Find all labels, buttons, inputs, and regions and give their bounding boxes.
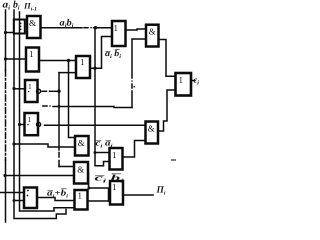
svg-text:1: 1 <box>112 182 117 192</box>
junction L1-GB <box>3 174 6 177</box>
wire G6 output down to G7 upper input <box>159 40 176 77</box>
svg-text:1: 1 <box>29 49 34 59</box>
svg-text:&: & <box>148 124 155 134</box>
gate G10 (OR 1) bottom left <box>24 188 37 209</box>
wire G4 output to G8 upper input <box>45 124 146 126</box>
gate G2 (OR 1) <box>26 48 39 72</box>
wire x95 bottom to G9 lower input <box>95 153 110 166</box>
wire x95 vertical <box>94 28 96 153</box>
wire V1 to G5m lower input <box>59 72 76 74</box>
gate GA (AND &) middle <box>75 136 89 156</box>
wire G9 output up to G8 lower input <box>123 141 146 158</box>
wire L2 to GA lower input <box>14 144 75 147</box>
wire G12 output П_i <box>123 194 153 196</box>
gate G5 (OR 1) top middle <box>112 21 126 46</box>
junction GB output corner <box>88 187 91 190</box>
wire G2 output to G5m <box>39 60 76 62</box>
wire G11 output to G12 input <box>88 200 111 202</box>
svg-text:1: 1 <box>80 57 85 67</box>
wire G10 output to G11 input <box>37 198 75 201</box>
wire L2 to G3 input <box>14 88 25 90</box>
wire rail L2 (b_i) vertical with bottom route to G11 <box>14 10 66 219</box>
junction G2 output / V2 <box>67 59 70 62</box>
wire rail L1 (a_i) vertical <box>5 10 7 222</box>
wire from left edge to G10 input <box>0 192 24 194</box>
junction x95 / G9 upper wire <box>94 151 97 154</box>
wire G8 output up to G7 lower input <box>159 90 176 131</box>
junction L2-GA <box>12 142 15 145</box>
wire G1 output a_i b_i to G5 <box>41 27 113 29</box>
svg-text:1: 1 <box>112 150 117 160</box>
wire G5m output up to G5 lower input <box>90 37 112 69</box>
junction L2-G10 <box>13 199 16 202</box>
gate GB (AND &) middle lower <box>74 162 88 184</box>
wire G5 output to G6 input <box>126 29 147 30</box>
gate G7 (OR 1) right, sum output <box>176 73 192 96</box>
junction L3-G4 <box>18 123 21 126</box>
wire V1 vertical <box>58 73 60 167</box>
junction a_i b_i with x95 vertical <box>94 26 97 29</box>
svg-text:1: 1 <box>28 115 32 124</box>
svg-text:1: 1 <box>179 75 184 85</box>
wire L2 stub to G10 lower input <box>14 200 24 202</box>
junction L1-G1 <box>4 31 7 34</box>
svg-text:&: & <box>78 138 85 148</box>
wire G3 output dashed to V1 <box>42 90 59 92</box>
gate G1 (AND &) top-left <box>27 16 41 38</box>
junction V1 / y106 wire <box>58 105 61 108</box>
wire GB output down to G12 <box>88 173 109 201</box>
junction L2-G3 <box>12 87 15 90</box>
svg-text:&: & <box>29 18 36 28</box>
wire G7 output c_i <box>191 80 195 82</box>
wire L1 to G2 input <box>6 58 27 60</box>
gate G5m (OR 1) middle <box>76 56 90 78</box>
noise dash right of G9 output <box>172 159 176 161</box>
svg-text:&: & <box>77 164 84 174</box>
gate G4 (NOT 1) with bubble <box>25 113 39 135</box>
svg-text:1: 1 <box>28 82 32 91</box>
wire x95 to G9 upper input <box>95 152 110 154</box>
gate G3 (NOT 1) with bubble <box>25 80 38 102</box>
gate G6 (AND &) top right <box>146 25 159 47</box>
wire horizontal y106 dash-dot to x132 vertical <box>43 105 132 107</box>
junction G3 output / V1 <box>57 90 60 93</box>
junction G5m output / x95 vertical <box>93 67 96 70</box>
svg-text:1: 1 <box>114 23 119 33</box>
wire L1 to input box of G1 <box>6 32 14 34</box>
wire rail L3 (П_{i-1}) vertical with bottom route to G11 <box>20 12 75 211</box>
noise dot above G8 output corner <box>133 86 135 88</box>
wire x132 vertical to G6 lower input (partly dashed) <box>131 39 146 108</box>
wire L1 to GB lower input <box>5 175 74 177</box>
wire L3 to G4 input <box>20 124 25 126</box>
svg-text:&: & <box>149 27 156 37</box>
gate G1 input extension box with ellipsis dots <box>14 20 25 34</box>
gate G12 (OR 1) bottom, carry output <box>110 181 123 205</box>
gate G8 (AND &) mid right <box>146 122 159 144</box>
gate G9 (OR 1) mid bottom <box>110 148 123 170</box>
svg-text:1: 1 <box>78 191 83 201</box>
bubble G4 output <box>37 122 41 126</box>
wire V1 to GB upper input <box>59 166 74 168</box>
bubble G3 output <box>37 89 41 93</box>
wire V2 vertical to GA upper input <box>69 61 76 138</box>
junction L1-G2 <box>4 57 7 60</box>
gate G11 (OR 1) bottom middle <box>75 190 88 210</box>
